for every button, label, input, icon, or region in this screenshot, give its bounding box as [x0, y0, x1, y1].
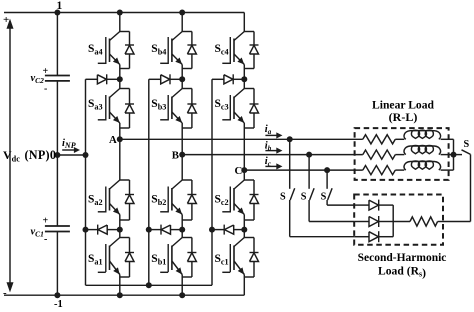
- wire right return: [443, 154, 471, 221]
- label S switch a: [280, 192, 286, 203]
- svg-text:Sb3: Sb3: [151, 98, 166, 112]
- label Sc2: [215, 194, 229, 208]
- svg-text:C: C: [235, 165, 243, 177]
- svg-text:S: S: [464, 139, 470, 150]
- label vC1 polarity: [43, 216, 49, 246]
- wire NP link: [57, 154, 85, 156]
- transistor Sb2: [160, 155, 196, 230]
- transistor Sc2: [222, 170, 258, 230]
- label Sa3: [88, 98, 103, 112]
- wire harmonic diode join: [392, 205, 394, 237]
- wire tap c to harmonic load: [327, 204, 354, 206]
- svg-text:Sa3: Sa3: [88, 98, 103, 112]
- arrow iNP: [62, 148, 79, 153]
- diode harmonic row b: [354, 216, 393, 227]
- svg-text:-: -: [3, 287, 7, 299]
- label Sb4: [151, 43, 166, 57]
- svg-text:vC1: vC1: [31, 227, 44, 239]
- switch S phase c: [327, 170, 332, 205]
- svg-text:Load (Rs): Load (Rs): [378, 265, 426, 280]
- clamp diode leg a lower: [86, 225, 120, 235]
- resistor linear row b: [363, 150, 396, 159]
- transistor Sa1: [98, 230, 134, 296]
- label vC1: [31, 227, 44, 239]
- label -1 bottom: [3, 287, 63, 310]
- svg-text:+: +: [43, 66, 49, 77]
- svg-text:Sa1: Sa1: [88, 253, 103, 267]
- label Sb3: [151, 98, 166, 112]
- clamp diode leg b lower: [149, 225, 182, 235]
- wire row b: [395, 154, 453, 156]
- svg-text:1: 1: [57, 0, 63, 12]
- switch S phase a: [290, 139, 295, 236]
- svg-text:Second-Harmonic: Second-Harmonic: [358, 252, 447, 264]
- wire DC-link capacitor branch upper: [56, 13, 58, 76]
- label Sc3: [215, 98, 229, 112]
- node tap ib: [306, 152, 312, 158]
- diode harmonic row a: [354, 231, 393, 242]
- svg-text:ic: ic: [265, 156, 271, 168]
- svg-text:S: S: [321, 192, 327, 203]
- wire capacitor branch lower: [56, 232, 58, 296]
- wire bottom DC rail (-1): [4, 294, 244, 296]
- clamp diode leg c lower: [212, 225, 244, 235]
- wire clamp bus leg a: [85, 79, 87, 285]
- transistor Sa3: [98, 79, 134, 139]
- wire tap b to harmonic load: [309, 221, 354, 223]
- capacitor C2 (vC2): [45, 76, 70, 81]
- wire row a: [395, 138, 453, 140]
- wire NP bottom tie: [86, 284, 213, 286]
- wire linear load right join: [453, 139, 455, 170]
- label (R-L): [389, 110, 418, 124]
- inductor linear row c: [404, 161, 440, 170]
- svg-text:Sb1: Sb1: [151, 253, 166, 267]
- transistor Sb4: [160, 13, 196, 80]
- label S switch b: [301, 192, 307, 203]
- wire clamp bus leg c: [211, 79, 213, 285]
- node bottom rail junctions: [54, 292, 185, 298]
- node tap ic: [324, 167, 330, 173]
- svg-text:ia: ia: [265, 124, 272, 136]
- clamp diode leg c upper: [212, 74, 244, 84]
- svg-text:(NP)0: (NP)0: [25, 148, 57, 162]
- svg-text:Sb2: Sb2: [151, 194, 166, 208]
- svg-text:iNP: iNP: [62, 138, 76, 150]
- label (NP)0: [25, 148, 57, 162]
- transistor Sc4: [222, 13, 258, 80]
- wire row c: [395, 169, 453, 171]
- label Sb1: [151, 253, 166, 267]
- switch S main: [454, 150, 471, 155]
- label iNP: [62, 138, 76, 150]
- inductor linear row a: [404, 130, 440, 139]
- label Sc1: [215, 253, 229, 267]
- label C: [235, 165, 243, 177]
- wire tap a to harmonic load: [290, 236, 355, 238]
- node NP tie leg b: [146, 282, 152, 288]
- node lower clamp junctions: [83, 227, 248, 233]
- wire phase B output: [182, 154, 363, 156]
- second-harmonic load box: [354, 195, 443, 245]
- switch S phase b: [309, 155, 314, 222]
- node linear load output: [451, 152, 457, 158]
- transistor Sa4: [98, 13, 134, 80]
- transistor Sa2: [98, 139, 134, 229]
- wire clamp bus leg b: [148, 79, 150, 285]
- diode harmonic row c: [354, 200, 393, 211]
- label ia: [265, 124, 272, 136]
- node B: [179, 152, 185, 158]
- capacitor C1 (vC1): [45, 226, 70, 232]
- svg-text:A: A: [109, 134, 117, 146]
- node upper clamp junctions: [117, 76, 248, 82]
- arrow ia: [265, 133, 281, 138]
- svg-text:Vdc: Vdc: [3, 148, 20, 164]
- inductor linear row b: [404, 146, 440, 155]
- node A: [117, 136, 123, 142]
- wire phase C output: [244, 169, 362, 171]
- resistor Rs: [393, 217, 443, 226]
- label Sa2: [88, 194, 103, 208]
- arrow ic: [265, 164, 281, 169]
- linear load box: [355, 128, 449, 180]
- svg-text:+: +: [3, 14, 9, 26]
- resistor linear row a: [363, 135, 396, 144]
- node NP (0): [54, 152, 88, 158]
- svg-text:Sc2: Sc2: [215, 194, 229, 208]
- transistor Sb3: [160, 79, 196, 154]
- svg-text:B: B: [172, 149, 179, 161]
- label vC2: [31, 73, 45, 85]
- svg-text:+: +: [43, 216, 49, 227]
- label +1 top: [3, 0, 63, 26]
- label Vdc: [3, 148, 20, 164]
- arrow ib: [265, 148, 281, 153]
- svg-text:S: S: [301, 192, 307, 203]
- svg-text:-: -: [44, 234, 47, 245]
- wire capacitor branch middle: [56, 81, 58, 226]
- Vdc arrow: [7, 20, 13, 292]
- label S switch c: [321, 192, 327, 203]
- wire phase A output: [120, 138, 363, 140]
- svg-text:Sa2: Sa2: [88, 194, 103, 208]
- transistor Sb1: [160, 230, 196, 296]
- svg-text:ib: ib: [265, 140, 272, 152]
- label ib: [265, 140, 272, 152]
- label ic: [265, 156, 271, 168]
- label Second-Harmonic: [358, 252, 447, 264]
- transistor Sc1: [222, 230, 258, 296]
- clamp diode leg a upper: [86, 74, 120, 84]
- svg-text:Sb4: Sb4: [151, 43, 166, 57]
- label Sa4: [88, 43, 103, 57]
- node top rail junctions: [54, 10, 185, 16]
- node tap ia: [287, 136, 293, 142]
- wire top DC rail (+1): [4, 12, 244, 14]
- label Sc4: [215, 43, 229, 57]
- label vC2 polarity: [43, 66, 49, 95]
- node C: [241, 167, 247, 173]
- svg-text:S: S: [280, 192, 286, 203]
- label A: [109, 134, 117, 146]
- clamp diode leg b upper: [149, 74, 182, 84]
- svg-text:Sa4: Sa4: [88, 43, 103, 57]
- resistor linear row c: [363, 166, 396, 175]
- transistor Sc3: [222, 79, 258, 170]
- label Sb2: [151, 194, 166, 208]
- label B: [172, 149, 179, 161]
- label Sa1: [88, 253, 103, 267]
- svg-text:Sc4: Sc4: [215, 43, 229, 57]
- svg-text:Sc3: Sc3: [215, 98, 229, 112]
- label Load (Rs): [378, 265, 426, 280]
- label Linear Load: [372, 99, 435, 112]
- svg-text:-1: -1: [54, 299, 63, 310]
- label S switch main: [464, 139, 470, 150]
- svg-text:(R-L): (R-L): [389, 110, 418, 124]
- svg-text:-: -: [44, 84, 47, 95]
- svg-text:Sc1: Sc1: [215, 253, 229, 267]
